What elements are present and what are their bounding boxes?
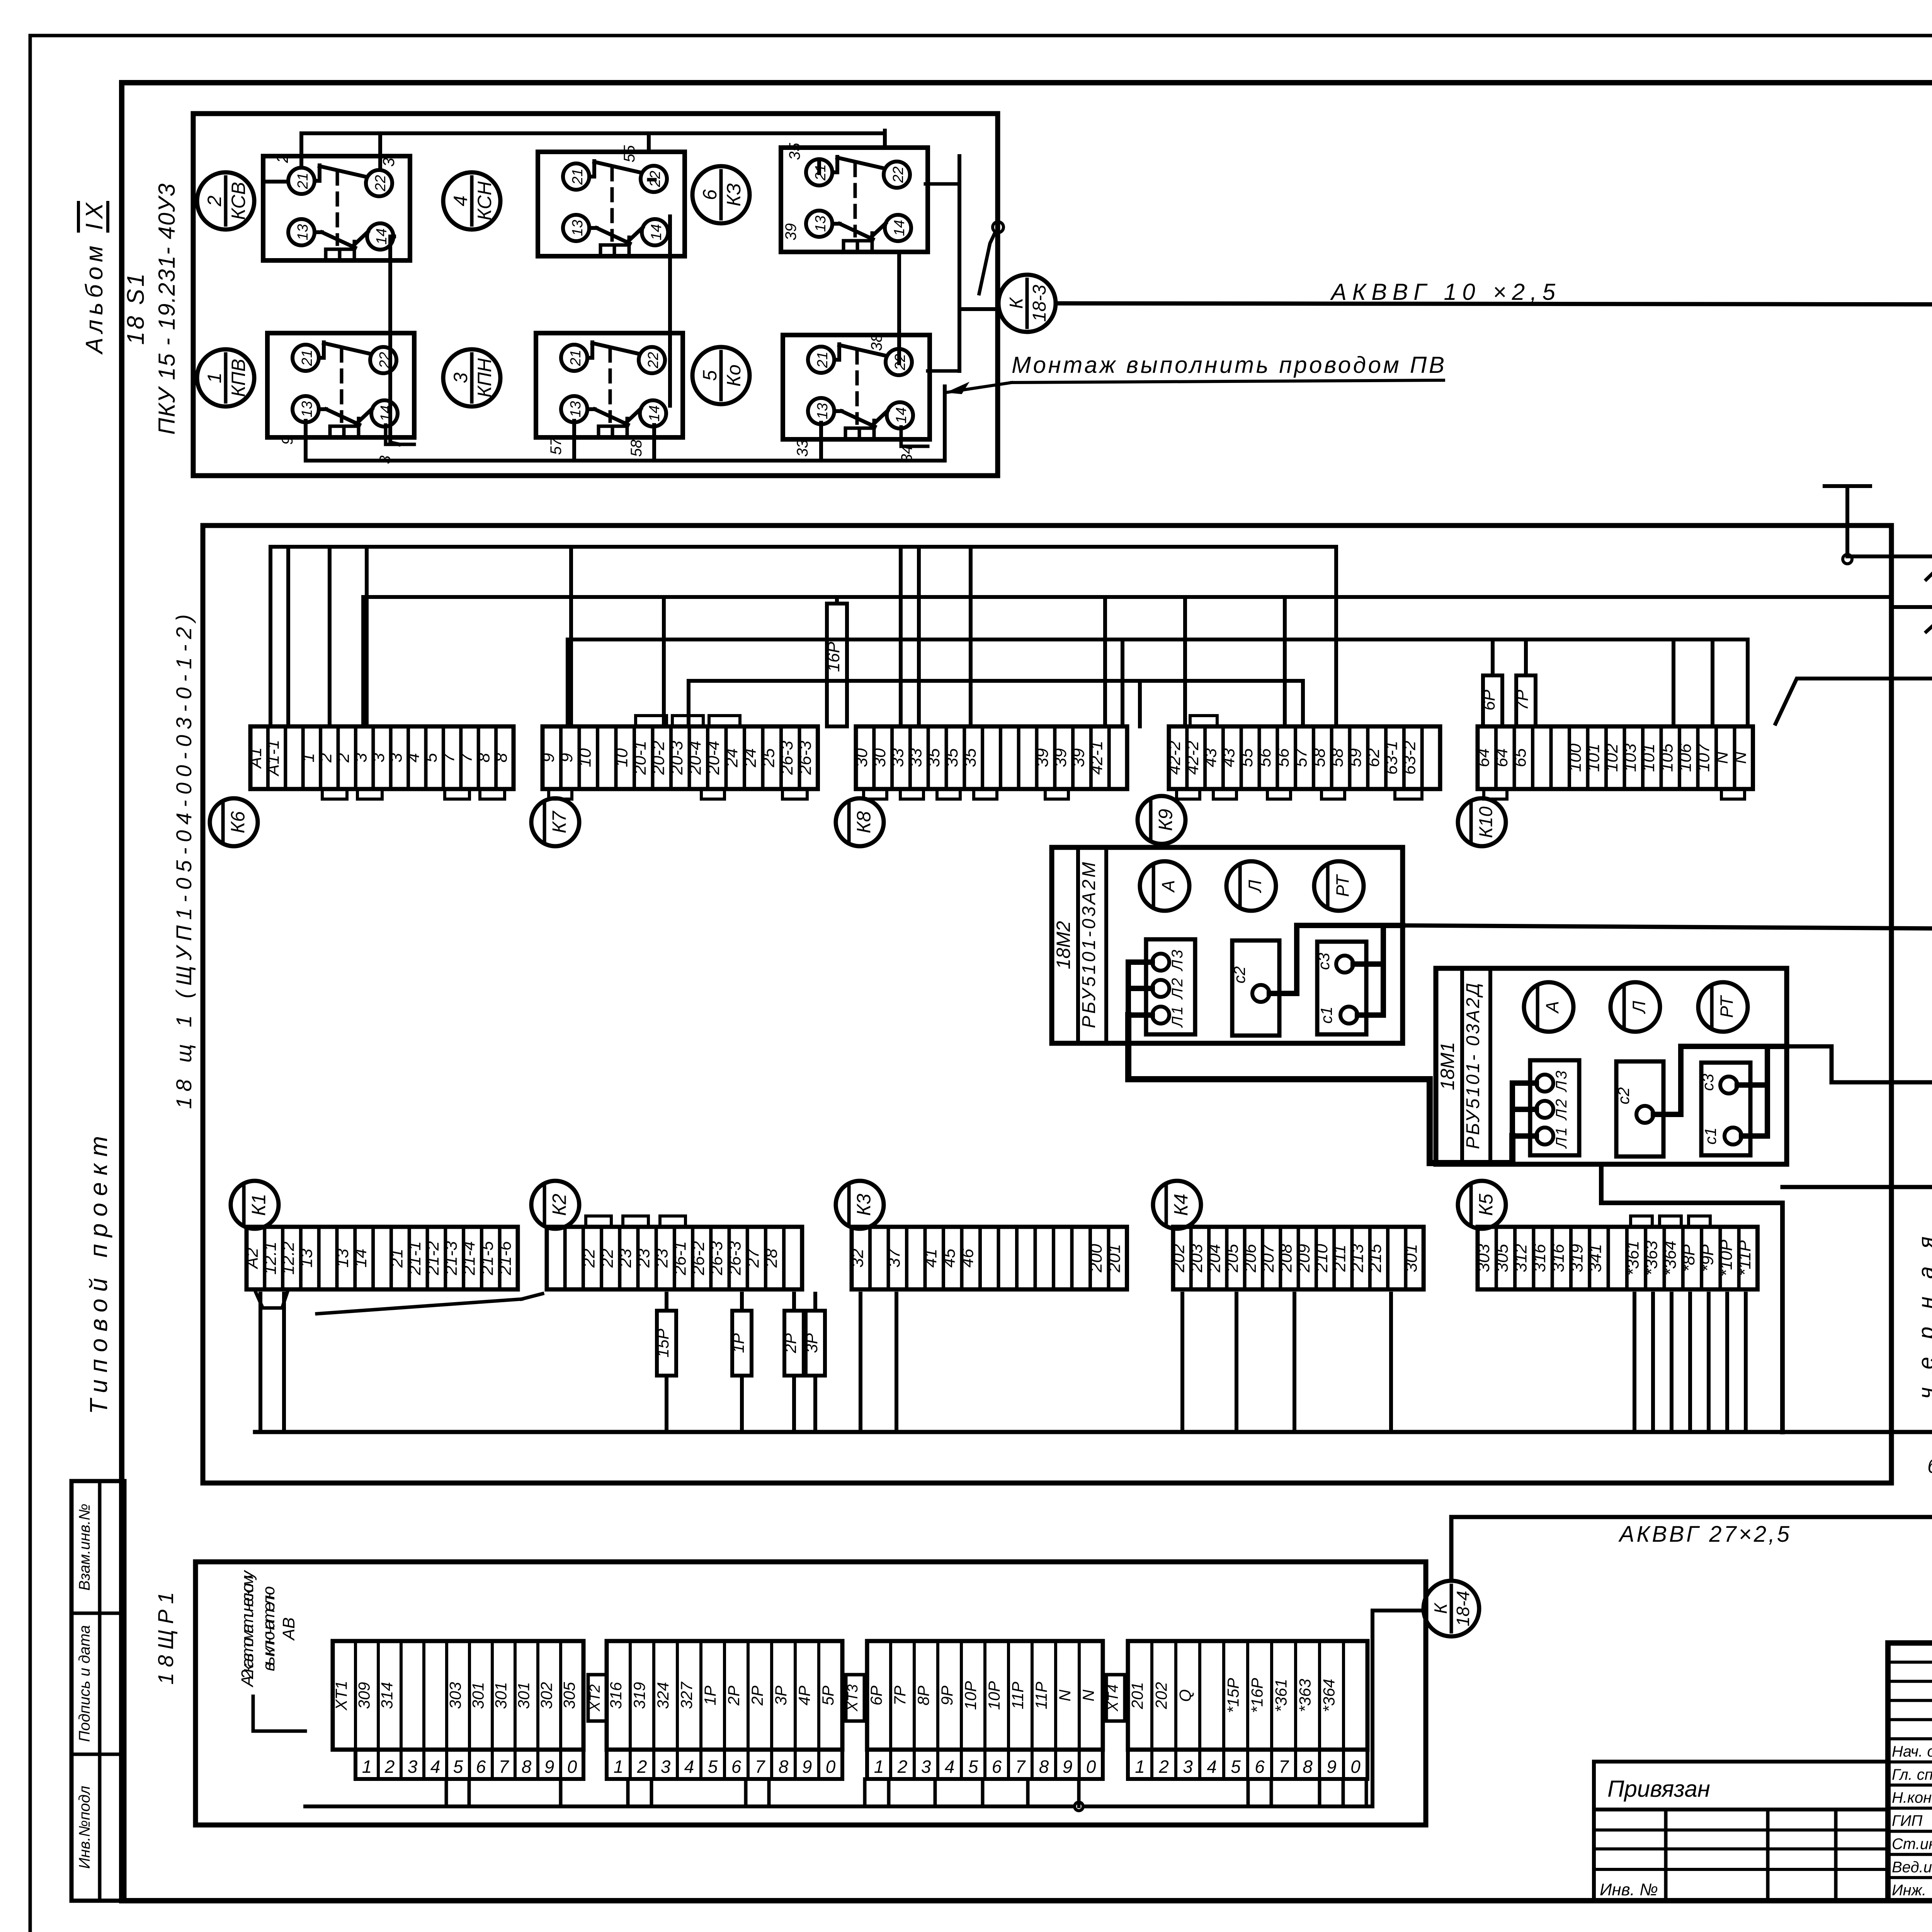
svg-text:202: 202 xyxy=(1152,1682,1170,1709)
svg-text:5: 5 xyxy=(699,370,721,381)
wire drops XT to bus xyxy=(446,1779,1366,1806)
svg-text:К1: К1 xyxy=(248,1194,270,1216)
svg-text:303: 303 xyxy=(446,1682,464,1709)
svg-text:РТ: РТ xyxy=(1332,874,1352,897)
terminal strip ХТ1 group xyxy=(332,1641,583,1779)
svg-text:выключателю: выключателю xyxy=(259,1586,278,1671)
svg-text:3: 3 xyxy=(1183,1757,1193,1777)
svg-text:15Р: 15Р xyxy=(654,1329,672,1358)
panel 18Щ1 box xyxy=(203,526,1891,1483)
К9 feet xyxy=(1177,789,1422,799)
svg-text:215: 215 xyxy=(1366,1244,1385,1273)
svg-text:9: 9 xyxy=(557,753,576,762)
svg-text:22: 22 xyxy=(580,1249,599,1268)
svg-text:11Р: 11Р xyxy=(1009,1682,1027,1709)
svg-text:2Р: 2Р xyxy=(724,1685,743,1706)
designator circle 6/КЗ xyxy=(692,166,750,223)
svg-text:24: 24 xyxy=(722,748,741,768)
svg-text:К2: К2 xyxy=(549,1194,570,1216)
svg-text:7: 7 xyxy=(1015,1757,1026,1777)
designator circle 5/Ко xyxy=(692,347,750,404)
svg-text:1Р: 1Р xyxy=(729,1333,747,1353)
hanging tag 7Р above К10 xyxy=(1513,639,1536,726)
svg-text:213: 213 xyxy=(1348,1244,1367,1273)
tag ХТ3 xyxy=(845,1675,864,1721)
svg-text:301: 301 xyxy=(492,1682,510,1709)
svg-text:3: 3 xyxy=(352,753,371,762)
svg-text:35: 35 xyxy=(961,748,980,767)
svg-text:N: N xyxy=(1713,752,1731,764)
svg-text:101: 101 xyxy=(1639,743,1658,772)
contact unit 6 КЗ (upper right) xyxy=(781,148,928,252)
svg-text:7Р: 7Р xyxy=(891,1685,909,1705)
svg-text:Инж.: Инж. xyxy=(1892,1882,1926,1899)
svg-text:21-6: 21-6 xyxy=(496,1241,515,1276)
svg-text:23: 23 xyxy=(652,1248,671,1268)
bottom internal bus of 18Щ1 xyxy=(255,1430,1932,1434)
svg-text:Н.контр.: Н.контр. xyxy=(1892,1789,1932,1806)
svg-text:18М1: 18М1 xyxy=(1437,1042,1458,1090)
svg-text:9: 9 xyxy=(279,436,296,445)
svg-text:63-2: 63-2 xyxy=(1400,741,1419,775)
svg-text:18М2: 18М2 xyxy=(1053,921,1074,969)
cable designator circle К 18-3 (left) xyxy=(998,275,1056,332)
svg-text:22: 22 xyxy=(645,352,662,369)
svg-text:РБУ5101- 03А2Д: РБУ5101- 03А2Д xyxy=(1463,983,1483,1149)
svg-text:4: 4 xyxy=(684,1757,694,1777)
svg-text:58: 58 xyxy=(1328,748,1347,767)
terminal strip К2 xyxy=(547,1227,802,1289)
svg-text:КЗ: КЗ xyxy=(723,183,745,206)
svg-text:*16Р: *16Р xyxy=(1248,1678,1266,1713)
svg-text:209: 209 xyxy=(1294,1244,1313,1272)
svg-text:8: 8 xyxy=(1039,1757,1049,1777)
svg-text:28: 28 xyxy=(762,1248,781,1268)
svg-text:ХТ2: ХТ2 xyxy=(587,1684,603,1712)
svg-text:*363: *363 xyxy=(1642,1240,1661,1276)
svg-text:5: 5 xyxy=(708,1757,718,1777)
svg-text:с1: с1 xyxy=(1317,1007,1335,1024)
distribution panel 18ЩР1 box xyxy=(196,1562,1426,1825)
hanging tags 15Р 1Р 2Р 3Р below К2 xyxy=(654,1294,676,1432)
link wire unit2-unit1 xyxy=(390,236,399,444)
svg-text:41: 41 xyxy=(921,1249,940,1268)
svg-text:7Р: 7Р xyxy=(1513,689,1532,710)
18S1 internal top bus xyxy=(301,131,885,135)
svg-text:42-2: 42-2 xyxy=(1183,741,1202,775)
svg-text:10: 10 xyxy=(575,748,594,767)
svg-text:16Р: 16Р xyxy=(824,641,843,672)
svg-text:201: 201 xyxy=(1105,1244,1124,1272)
title block main table xyxy=(1888,1643,1932,1901)
svg-text:200: 200 xyxy=(1087,1244,1105,1273)
svg-text:202: 202 xyxy=(1169,1244,1188,1272)
svg-text:25: 25 xyxy=(759,748,778,767)
svg-text:64: 64 xyxy=(1492,748,1511,767)
svg-text:208: 208 xyxy=(1277,1244,1296,1273)
svg-text:АВ: АВ xyxy=(279,1617,298,1641)
svg-text:55: 55 xyxy=(1237,748,1256,767)
svg-text:56: 56 xyxy=(1274,748,1293,767)
designator circle К9 xyxy=(1138,796,1185,844)
svg-text:57: 57 xyxy=(548,437,565,455)
svg-text:1: 1 xyxy=(299,753,318,762)
svg-text:с1: с1 xyxy=(1701,1128,1719,1145)
left annex Привязан box xyxy=(1594,1762,1888,1901)
unit6 wires + pins 35,39 xyxy=(782,131,885,240)
svg-text:102: 102 xyxy=(1602,743,1621,772)
wire from unit6 pin14 down to unit5 pin22 xyxy=(897,254,901,363)
svg-text:9: 9 xyxy=(544,1757,554,1777)
svg-text:КСВ: КСВ xyxy=(228,182,249,220)
svg-text:2: 2 xyxy=(316,753,335,763)
svg-text:341: 341 xyxy=(1586,1244,1605,1272)
svg-text:К6: К6 xyxy=(227,811,249,833)
svg-text:2Р: 2Р xyxy=(781,1333,799,1353)
К7 bumps above 20-1..20-3 xyxy=(636,716,740,726)
svg-text:27: 27 xyxy=(743,1248,762,1268)
svg-text:21: 21 xyxy=(299,350,315,366)
wire drops from L2 xyxy=(363,597,1285,726)
terminal strip ХТ2 group xyxy=(607,1641,842,1779)
svg-text:N: N xyxy=(1731,752,1750,764)
svg-text:ХТ1: ХТ1 xyxy=(332,1680,350,1711)
svg-text:Взам.инв.№: Взам.инв.№ xyxy=(76,1503,93,1590)
svg-text:39: 39 xyxy=(1033,748,1052,767)
svg-text:13: 13 xyxy=(570,220,586,236)
svg-text:б: б xyxy=(1927,1454,1932,1478)
svg-text:63-1: 63-1 xyxy=(1382,741,1401,775)
designator circle К1 xyxy=(231,1181,279,1229)
svg-text:6: 6 xyxy=(699,189,721,200)
svg-text:с2: с2 xyxy=(1230,966,1248,983)
svg-text:Ко: Ко xyxy=(723,364,745,386)
svg-text:62: 62 xyxy=(1364,748,1383,767)
svg-text:22: 22 xyxy=(372,175,389,192)
svg-text:13: 13 xyxy=(568,401,584,417)
svg-text:206: 206 xyxy=(1241,1244,1260,1273)
svg-text:0: 0 xyxy=(826,1757,836,1777)
svg-text:Альбом IX: Альбом IX xyxy=(81,202,108,355)
terminal strip ХТ3 group xyxy=(867,1641,1103,1779)
svg-text:14: 14 xyxy=(893,407,910,423)
label АКВВГ 27х2,5 xyxy=(1618,1522,1790,1547)
svg-text:*11Р: *11Р xyxy=(1735,1240,1754,1276)
svg-text:303: 303 xyxy=(1474,1244,1493,1272)
svg-text:56: 56 xyxy=(1255,748,1274,767)
label АКВВГ 10х2,5 xyxy=(1330,279,1556,305)
svg-text:14: 14 xyxy=(351,1249,370,1268)
svg-text:46: 46 xyxy=(958,1248,977,1267)
contact unit 2 КСВ xyxy=(263,156,410,260)
svg-text:301: 301 xyxy=(1402,1244,1421,1272)
svg-text:319: 319 xyxy=(1567,1244,1586,1272)
svg-text:4Р: 4Р xyxy=(795,1685,813,1705)
svg-text:65: 65 xyxy=(1510,748,1529,767)
svg-text:9: 9 xyxy=(1327,1757,1337,1777)
svg-text:КСН: КСН xyxy=(474,181,495,221)
tag ХТ2 xyxy=(587,1675,607,1721)
wire РБУ18М2 to Н18М2-1 xyxy=(1403,925,1932,929)
unit1 external wires + pin labels 9,3 xyxy=(279,421,414,464)
svg-text:2: 2 xyxy=(384,1757,395,1777)
svg-text:К: К xyxy=(1006,297,1027,309)
unit2 external wires + pin labels 2,3 xyxy=(273,133,398,168)
svg-text:ХТ4: ХТ4 xyxy=(1105,1684,1121,1712)
designator circle К2 xyxy=(531,1181,579,1229)
svg-text:14: 14 xyxy=(374,228,390,245)
label 18 S1 xyxy=(122,274,149,345)
svg-text:101: 101 xyxy=(1584,743,1603,772)
svg-text:9Р: 9Р xyxy=(938,1685,956,1705)
svg-text:ХТ3: ХТ3 xyxy=(845,1684,861,1712)
svg-text:13: 13 xyxy=(299,401,315,417)
svg-text:21: 21 xyxy=(570,168,586,185)
svg-text:201: 201 xyxy=(1128,1682,1146,1709)
svg-text:4: 4 xyxy=(1207,1757,1217,1777)
svg-text:327: 327 xyxy=(677,1681,696,1709)
svg-text:2: 2 xyxy=(204,196,225,207)
terminal strip К5 xyxy=(1474,1227,1758,1289)
svg-text:33: 33 xyxy=(906,748,925,767)
svg-text:с3: с3 xyxy=(1699,1074,1717,1091)
svg-text:314: 314 xyxy=(378,1682,396,1709)
svg-text:4: 4 xyxy=(945,1757,955,1777)
svg-text:42-2: 42-2 xyxy=(1165,741,1184,775)
designator circle 3/КПН xyxy=(443,349,500,406)
svg-text:43: 43 xyxy=(1201,748,1220,767)
label ПКУ 15 - 19.231- 40У3 xyxy=(154,184,180,435)
designator circle К10 xyxy=(1458,798,1506,846)
svg-text:12.2: 12.2 xyxy=(279,1242,298,1275)
К5 bumps above xyxy=(1631,1216,1710,1227)
label А2 к автоматическому выключателю АВ xyxy=(238,1570,298,1688)
svg-text:10Р: 10Р xyxy=(985,1681,1003,1710)
terminal strip К6 xyxy=(246,726,514,789)
svg-text:204: 204 xyxy=(1205,1244,1224,1272)
label 18 щ 1 (ЩУП1-05-04-00-03-0-1-2) xyxy=(172,614,196,1109)
contact unit 4 КСН (upper middle) xyxy=(538,152,685,256)
svg-text:21: 21 xyxy=(387,1249,406,1268)
svg-text:4: 4 xyxy=(450,196,471,206)
svg-text:35: 35 xyxy=(942,748,961,767)
terminal strip К7 xyxy=(539,726,818,789)
svg-text:*361: *361 xyxy=(1623,1241,1642,1276)
svg-text:КПН: КПН xyxy=(474,358,495,398)
svg-text:*361: *361 xyxy=(1272,1679,1290,1712)
svg-text:А: А xyxy=(1542,1001,1562,1014)
svg-text:39: 39 xyxy=(1051,748,1070,767)
svg-text:Л: Л xyxy=(1245,880,1265,893)
svg-text:3: 3 xyxy=(450,372,471,383)
left margin table (Взам.инв.№ / Подпись и дата / Инв.№подл) xyxy=(71,1481,124,1901)
svg-text:*8Р: *8Р xyxy=(1679,1244,1698,1272)
cable АКВВГ 27х2,5 wire xyxy=(1451,1475,1932,1581)
svg-text:39: 39 xyxy=(782,223,799,241)
contact unit 1 КПВ xyxy=(267,333,414,437)
svg-text:А2: А2 xyxy=(243,1248,262,1270)
left annex lower table xyxy=(1594,1810,1888,1901)
svg-text:21-1: 21-1 xyxy=(405,1241,424,1276)
unit4 wires + pin 55 xyxy=(621,135,655,180)
wire into К18-2b xyxy=(1891,605,1932,609)
svg-text:8: 8 xyxy=(522,1757,532,1777)
svg-text:1: 1 xyxy=(614,1757,624,1777)
svg-text:301: 301 xyxy=(469,1682,487,1709)
svg-text:Ст.инж.: Ст.инж. xyxy=(1892,1835,1932,1852)
svg-text:37: 37 xyxy=(884,1248,903,1267)
svg-text:324: 324 xyxy=(654,1682,672,1709)
terminal strip К1 xyxy=(243,1227,518,1289)
svg-text:2Р: 2Р xyxy=(748,1685,766,1706)
svg-text:*363: *363 xyxy=(1296,1679,1314,1712)
label черная (vertical) xyxy=(1914,1236,1932,1399)
svg-text:А1-1: А1-1 xyxy=(264,740,283,777)
svg-text:Л: Л xyxy=(1629,1001,1649,1014)
svg-text:К8: К8 xyxy=(853,811,875,833)
К10 feet xyxy=(1484,789,1745,799)
svg-text:К4: К4 xyxy=(1170,1194,1192,1216)
svg-text:55: 55 xyxy=(621,145,638,162)
wire into К18-3b xyxy=(1847,554,1932,558)
svg-text:Q: Q xyxy=(1176,1689,1194,1702)
designator circle К3 xyxy=(836,1181,884,1229)
svg-text:К: К xyxy=(1430,1602,1451,1614)
svg-text:1: 1 xyxy=(204,372,225,383)
svg-text:N: N xyxy=(1056,1689,1074,1701)
svg-text:21: 21 xyxy=(815,352,831,368)
svg-text:1Р: 1Р xyxy=(701,1685,719,1705)
svg-text:2: 2 xyxy=(637,1757,647,1777)
svg-text:3: 3 xyxy=(379,158,398,167)
wire drops from L3 xyxy=(568,639,1713,726)
terminal strip К8 xyxy=(852,726,1127,789)
svg-text:11Р: 11Р xyxy=(1032,1682,1050,1709)
svg-text:РТ: РТ xyxy=(1716,995,1736,1018)
К8 feet xyxy=(864,789,1068,799)
svg-text:39: 39 xyxy=(1069,748,1088,767)
designator circle К4 xyxy=(1153,1181,1201,1229)
svg-text:7: 7 xyxy=(1279,1757,1289,1777)
svg-text:5: 5 xyxy=(968,1757,978,1777)
svg-text:26-3: 26-3 xyxy=(707,1241,726,1276)
svg-text:Инв. №: Инв. № xyxy=(1600,1880,1658,1899)
svg-text:38: 38 xyxy=(868,333,885,351)
svg-text:26-1: 26-1 xyxy=(671,1241,690,1276)
svg-text:6: 6 xyxy=(1255,1757,1265,1777)
К6 feet xyxy=(322,789,505,799)
svg-text:8: 8 xyxy=(1303,1757,1313,1777)
designator circle К7 xyxy=(531,798,579,846)
wire drops К1 to bus xyxy=(260,1294,284,1432)
margin label Типовой проект xyxy=(85,1136,112,1414)
svg-text:3Р: 3Р xyxy=(803,1333,821,1353)
svg-text:14: 14 xyxy=(646,405,663,422)
wire bus L2 xyxy=(363,595,1891,599)
cable flag + arrows at bus top xyxy=(1926,546,1932,716)
svg-text:58: 58 xyxy=(1310,748,1328,767)
svg-text:*10Р: *10Р xyxy=(1717,1240,1736,1277)
svg-text:211: 211 xyxy=(1330,1245,1349,1272)
svg-text:22: 22 xyxy=(890,167,906,183)
svg-text:301: 301 xyxy=(515,1682,533,1709)
К1 foot + diagonal xyxy=(255,1291,543,1314)
terminal strip К4 xyxy=(1169,1227,1423,1289)
margin label Альбом IX xyxy=(78,202,108,355)
svg-text:7: 7 xyxy=(755,1757,765,1777)
svg-text:13: 13 xyxy=(815,403,831,419)
svg-text:3: 3 xyxy=(921,1757,931,1777)
svg-text:1: 1 xyxy=(362,1757,372,1777)
svg-text:6: 6 xyxy=(992,1757,1002,1777)
svg-text:30: 30 xyxy=(870,748,889,767)
К9 bump xyxy=(1190,716,1217,726)
svg-text:А: А xyxy=(1158,880,1178,893)
svg-text:Инв.№подл: Инв.№подл xyxy=(76,1786,93,1869)
svg-text:14: 14 xyxy=(891,220,908,236)
svg-text:5: 5 xyxy=(422,753,440,762)
svg-text:КПВ: КПВ xyxy=(228,359,249,397)
svg-text:13: 13 xyxy=(295,224,311,240)
svg-text:22: 22 xyxy=(598,1249,617,1268)
svg-text:18-3: 18-3 xyxy=(1029,285,1050,322)
svg-text:4: 4 xyxy=(430,1757,440,1777)
wire from 18М1 bottom to right xyxy=(1601,1168,1782,1432)
svg-text:*364: *364 xyxy=(1320,1679,1338,1712)
svg-text:42-1: 42-1 xyxy=(1087,741,1106,775)
svg-text:Вед.инж.: Вед.инж. xyxy=(1892,1859,1932,1876)
svg-text:207: 207 xyxy=(1259,1243,1277,1273)
svg-text:10Р: 10Р xyxy=(961,1681,980,1710)
svg-text:312: 312 xyxy=(1512,1244,1531,1272)
18S1 right vertical bus xyxy=(925,156,999,371)
svg-text:13: 13 xyxy=(297,1248,316,1267)
note Монтаж выполнить проводом ПВ with leader xyxy=(946,352,1444,394)
svg-text:26-2: 26-2 xyxy=(689,1241,708,1276)
svg-text:20-4: 20-4 xyxy=(704,741,723,775)
svg-text:1: 1 xyxy=(1135,1757,1145,1777)
unit3 wires + pins 57,58 xyxy=(548,421,654,461)
svg-text:13: 13 xyxy=(813,216,829,232)
svg-text:К9: К9 xyxy=(1155,809,1177,831)
svg-text:А2 к автоматическому: А2 к автоматическому xyxy=(238,1570,257,1688)
svg-text:Нач. отд: Нач. отд xyxy=(1892,1743,1932,1760)
svg-text:3: 3 xyxy=(408,1757,418,1777)
svg-text:0: 0 xyxy=(1086,1757,1096,1777)
svg-text:ГИП: ГИП xyxy=(1892,1813,1923,1830)
wire bus L1 xyxy=(270,545,1336,549)
svg-text:ПКУ 15 - 19.231- 40У3: ПКУ 15 - 19.231- 40У3 xyxy=(154,184,180,435)
terminal strip ХТ4 group xyxy=(1128,1641,1367,1779)
svg-text:9: 9 xyxy=(1063,1757,1073,1777)
wire drops К3/К4 to bus xyxy=(861,1294,1391,1432)
svg-text:К5: К5 xyxy=(1475,1194,1497,1216)
svg-text:9: 9 xyxy=(539,753,558,762)
wire bus L4 xyxy=(689,679,1303,683)
svg-text:58: 58 xyxy=(628,439,645,457)
svg-text:33: 33 xyxy=(794,440,811,457)
svg-text:Монтаж выполнить проводом П: Монтаж выполнить проводом ПВ xyxy=(1012,352,1444,378)
svg-text:6Р: 6Р xyxy=(867,1685,885,1705)
svg-text:*364: *364 xyxy=(1661,1241,1680,1276)
tag ХТ4 xyxy=(1105,1675,1125,1721)
svg-text:с2: с2 xyxy=(1614,1087,1633,1104)
svg-text:21: 21 xyxy=(295,173,311,189)
contact unit 3 КПН (lower middle) xyxy=(536,333,683,437)
svg-text:106: 106 xyxy=(1676,743,1695,772)
wire К10 right to null bus xyxy=(1776,674,1932,724)
svg-text:305: 305 xyxy=(560,1682,578,1709)
